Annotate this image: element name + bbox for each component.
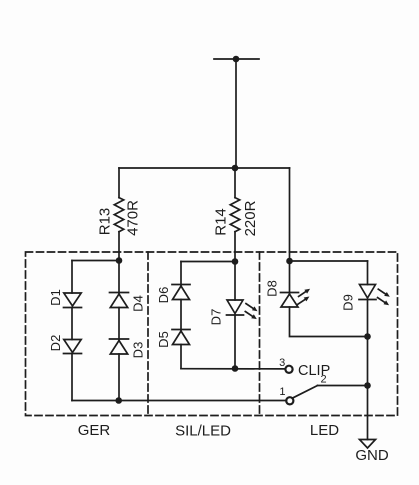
ground [360,440,376,449]
wire bottom rail to switch pin 1 [72,400,287,402]
LED D7 [227,300,258,319]
svg-text:D3: D3 [131,342,146,359]
wire GER right branch lower [118,354,120,401]
wire D1 to D2 [71,308,73,340]
wire GER left branch lower [71,354,73,401]
wire blade to LED branch [318,385,368,387]
diode D2 [64,340,82,354]
wire rail to LED box [289,168,291,261]
junction dot D7 bottom [232,365,239,372]
dashed box outline [26,252,398,416]
wire SIL left branch lower [180,345,182,369]
diode D3 [110,339,129,354]
svg-text:2: 2 [321,374,327,386]
svg-text:D1: D1 [48,289,63,306]
diode D1 [64,293,82,308]
svg-text:3: 3 [279,357,285,369]
wire D4 to D3 [118,308,120,341]
svg-text:D5: D5 [156,331,171,348]
LED D8 [281,289,311,307]
diode D5 [172,330,190,345]
svg-text:D4: D4 [131,295,146,312]
wire LED top [290,260,368,262]
junction dot GER bottom [115,397,122,404]
switch blade [293,386,318,398]
junction dot switch common [364,382,371,389]
wire GER right branch upper [118,261,120,295]
diode D4 [110,293,129,308]
wire D9 branch lower [367,300,369,440]
svg-text:220R: 220R [242,200,259,236]
dashed divider SIL-LED / LED [259,252,261,416]
resistor R14 [230,168,239,262]
diode D6 [172,285,190,300]
svg-text:470R: 470R [125,200,142,236]
wire SIL bottom to switch pin 3 [181,368,285,370]
junction dot LED mid [364,333,371,340]
wire SIL left branch upper [180,262,182,287]
dashed divider GER / SIL-LED [147,252,149,416]
wire SIL top [181,261,235,263]
junction dot SIL top [232,258,239,265]
wire D7 branch upper [234,262,236,301]
svg-text:D6: D6 [156,287,171,304]
wire GER left branch upper [71,261,73,294]
pin 3 terminal circle [285,366,292,373]
wire D9 branch upper [367,261,369,285]
svg-text:LED: LED [310,422,339,439]
svg-text:D9: D9 [341,294,356,311]
svg-text:R13: R13 [97,208,114,236]
wire GER top [72,260,119,262]
junction dot LED top [286,258,293,265]
wire D8 lower to mid rail [290,307,368,337]
svg-text:GND: GND [355,447,389,464]
svg-text:GER: GER [78,422,111,439]
svg-text:1: 1 [279,386,285,398]
power terminal bar [214,58,259,60]
wire D6 to D5 [180,300,182,332]
wire terminal to main rail [235,59,237,168]
junction dot main rail / R14 [232,165,239,172]
junction dot at terminal [233,56,240,63]
LED D9 [359,285,390,306]
wire D8 branch upper [289,261,291,294]
junction dot GER top [116,257,123,264]
pin 1 terminal circle [286,397,293,404]
resistor R13 [114,168,123,261]
svg-text:D7: D7 [209,309,224,326]
svg-text:SIL/LED: SIL/LED [175,422,231,439]
svg-text:D2: D2 [48,335,63,352]
wire main horizontal rail [119,167,290,169]
wire D7 lower [234,315,236,369]
svg-text:R14: R14 [213,208,230,236]
svg-text:D8: D8 [265,280,280,297]
